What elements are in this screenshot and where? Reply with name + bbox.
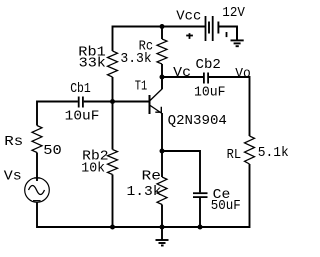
source Vs sine wave (29, 186, 45, 195)
svg-text:Rs: Rs (4, 134, 23, 150)
wire Rb2 bottom to bottom rail (112, 175, 114, 228)
wire emitter node to Re (161, 151, 163, 177)
battery minus marker (226, 32, 228, 37)
svg-text:Vs: Vs (4, 169, 22, 185)
svg-text:3.3k: 3.3k (120, 51, 151, 67)
node dot Ce ground (198, 225, 203, 230)
node dot Vcc rail (160, 24, 165, 29)
wire Rc bottom to Vc node (161, 64, 163, 77)
wire Cb1 right to base (84, 101, 150, 103)
ground at battery (231, 27, 244, 47)
resistor Rb2 (108, 150, 118, 175)
svg-text:33k: 33k (79, 55, 106, 71)
svg-text:Re: Re (142, 169, 162, 185)
node dot emitter ground (160, 225, 165, 230)
node dot base (110, 99, 115, 104)
svg-text:Cb2: Cb2 (196, 57, 221, 73)
node dot Rb2 ground (110, 225, 115, 230)
ground at emitter rail (156, 227, 169, 246)
resistor Rb1 (108, 51, 118, 77)
wire Re bottom to bottom rail (161, 205, 163, 228)
capacitor Cb1 (79, 97, 83, 108)
svg-text:10uF: 10uF (65, 109, 100, 125)
transistor T1 base bar (149, 95, 151, 114)
svg-text:Vcc: Vcc (176, 9, 201, 25)
wire RL top to Vo corner and Vo wire to Cb2 (209, 77, 250, 136)
svg-text:1.3k: 1.3k (127, 184, 162, 200)
resistor RL (245, 136, 255, 164)
svg-text:RL: RL (227, 147, 242, 163)
svg-text:Cb1: Cb1 (70, 81, 91, 97)
svg-text:Vo: Vo (235, 66, 251, 82)
wire Rb1 bottom to Rb2 top (112, 77, 114, 150)
transistor T1 collector lead (150, 78, 163, 102)
svg-text:5.1k: 5.1k (258, 145, 289, 161)
wire battery to ground (218, 27, 237, 41)
svg-text:Vc: Vc (173, 65, 191, 81)
wire Rs top to Cb1 left (37, 102, 78, 126)
node dot Vc (160, 75, 165, 80)
source Vs plus marker (34, 177, 40, 179)
capacitor Cb2 (204, 73, 208, 84)
battery plus marker (186, 33, 193, 39)
battery V1 12V (206, 16, 219, 41)
source Vs circle (25, 178, 50, 203)
wire Rs bottom to Vs (36, 153, 38, 182)
resistor Re (157, 177, 167, 205)
svg-text:10uF: 10uF (194, 85, 226, 101)
wire Vc node to Cb2 left (162, 76, 203, 78)
resistor Rs (32, 126, 42, 153)
svg-text:50uF: 50uF (211, 198, 241, 214)
source Vs minus marker (33, 200, 41, 202)
wire Vs to bottom rail and bottom rail to RL (37, 164, 250, 227)
wire top rail to Rc (161, 27, 163, 40)
wire top rail Vcc (113, 27, 206, 52)
node dot emitter (160, 149, 165, 154)
wire Ce bottom to bottom rail (199, 198, 201, 227)
transistor T1 emitter arrow (155, 107, 161, 112)
resistor Rc (157, 39, 167, 64)
svg-text:12V: 12V (222, 5, 245, 21)
svg-text:10k: 10k (81, 160, 105, 176)
svg-text:T1: T1 (135, 78, 148, 94)
transistor T1 emitter lead (150, 105, 163, 114)
wire emitter node to Ce top (162, 151, 200, 192)
svg-text:Q2N3904: Q2N3904 (168, 113, 227, 129)
capacitor Ce (193, 193, 208, 197)
svg-text:50: 50 (43, 143, 62, 159)
